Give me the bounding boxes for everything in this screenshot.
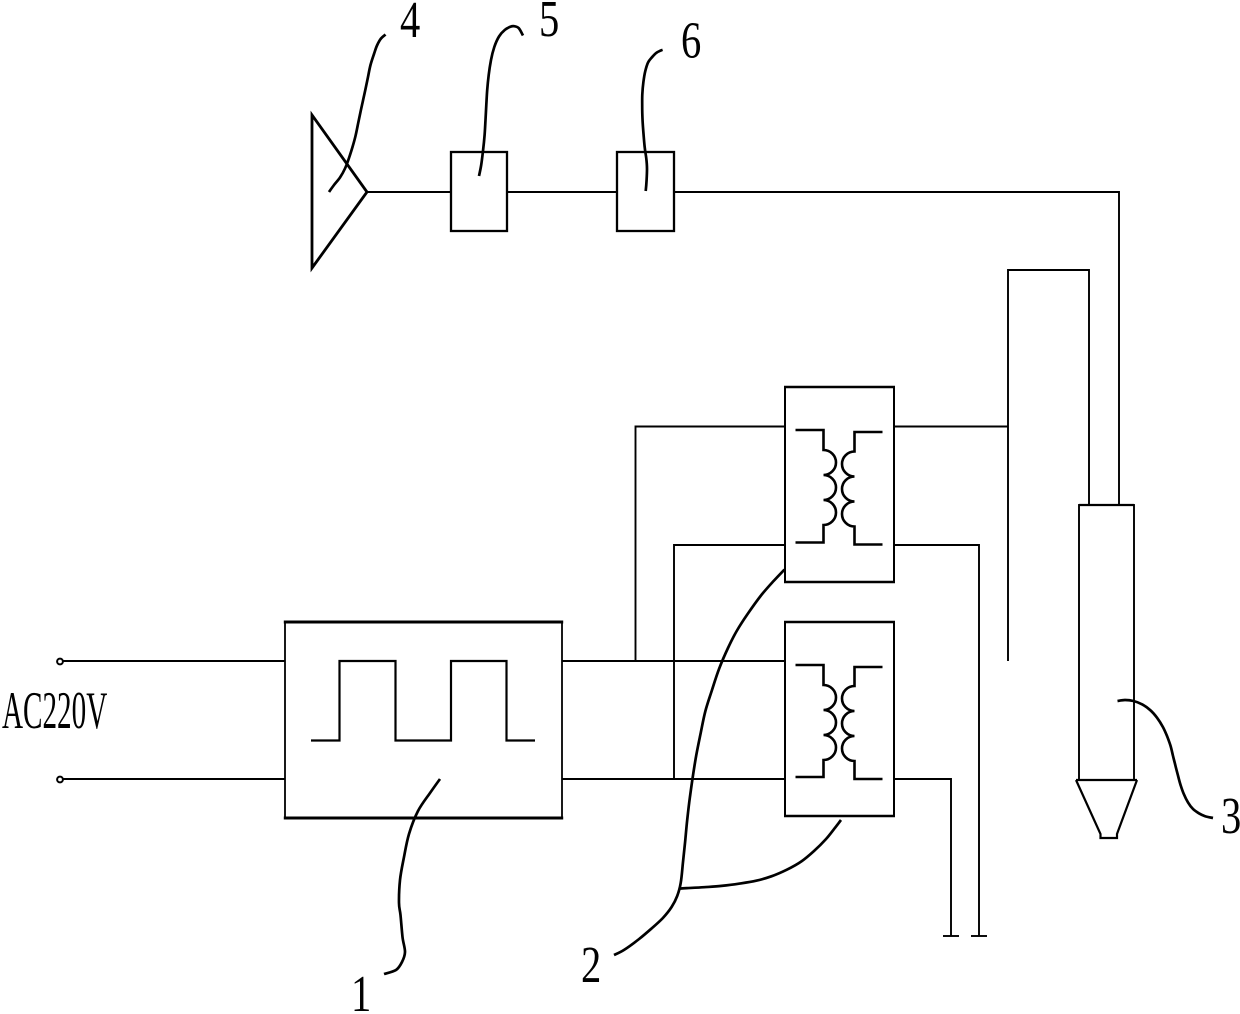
- wire: [674, 192, 1119, 505]
- transformer box 2b: [785, 622, 894, 816]
- wire: [674, 545, 785, 779]
- svg-text:AC220V: AC220V: [2, 682, 107, 740]
- wire: [894, 779, 951, 936]
- svg-text:5: 5: [539, 0, 559, 48]
- wire: [894, 426, 1008, 428]
- wire: [894, 545, 979, 936]
- svg-text:3: 3: [1221, 787, 1240, 845]
- leader line to 1: [384, 779, 440, 974]
- svg-text:2: 2: [581, 936, 601, 994]
- ground terminal: [943, 935, 959, 937]
- input terminal: [57, 659, 63, 665]
- wire: [562, 660, 785, 662]
- electrode probe 3 body: [1079, 505, 1134, 780]
- transformer 2a left winding: [796, 430, 836, 543]
- svg-text:1: 1: [351, 965, 371, 1014]
- input terminal: [57, 777, 63, 783]
- transformer 2b left winding: [796, 665, 836, 777]
- ground terminal: [971, 935, 987, 937]
- wire: [562, 778, 785, 780]
- square wave symbol: [311, 661, 535, 741]
- wire: [1008, 270, 1089, 661]
- svg-text:6: 6: [681, 12, 701, 70]
- leader line branch to 2b: [680, 820, 841, 889]
- wire: [507, 191, 617, 193]
- transformer 2b right winding: [842, 667, 883, 779]
- wire: [63, 778, 285, 780]
- component box 5: [451, 152, 507, 231]
- transformer box 2a: [785, 387, 894, 582]
- leader line to 3: [1118, 700, 1214, 818]
- component box 6: [617, 152, 674, 231]
- svg-text:4: 4: [400, 0, 420, 49]
- leader line to 5: [479, 26, 523, 176]
- inverter box 1: [285, 622, 562, 818]
- leader line to 6: [642, 50, 662, 191]
- leader line to 4: [329, 35, 386, 193]
- electrode probe 3 tip: [1076, 780, 1137, 838]
- wire: [367, 191, 451, 193]
- leader line to 2: [614, 570, 785, 956]
- transformer 2a right winding: [842, 432, 883, 545]
- wire: [636, 427, 786, 662]
- transducer horn 4: [312, 115, 367, 268]
- wire: [63, 660, 285, 662]
